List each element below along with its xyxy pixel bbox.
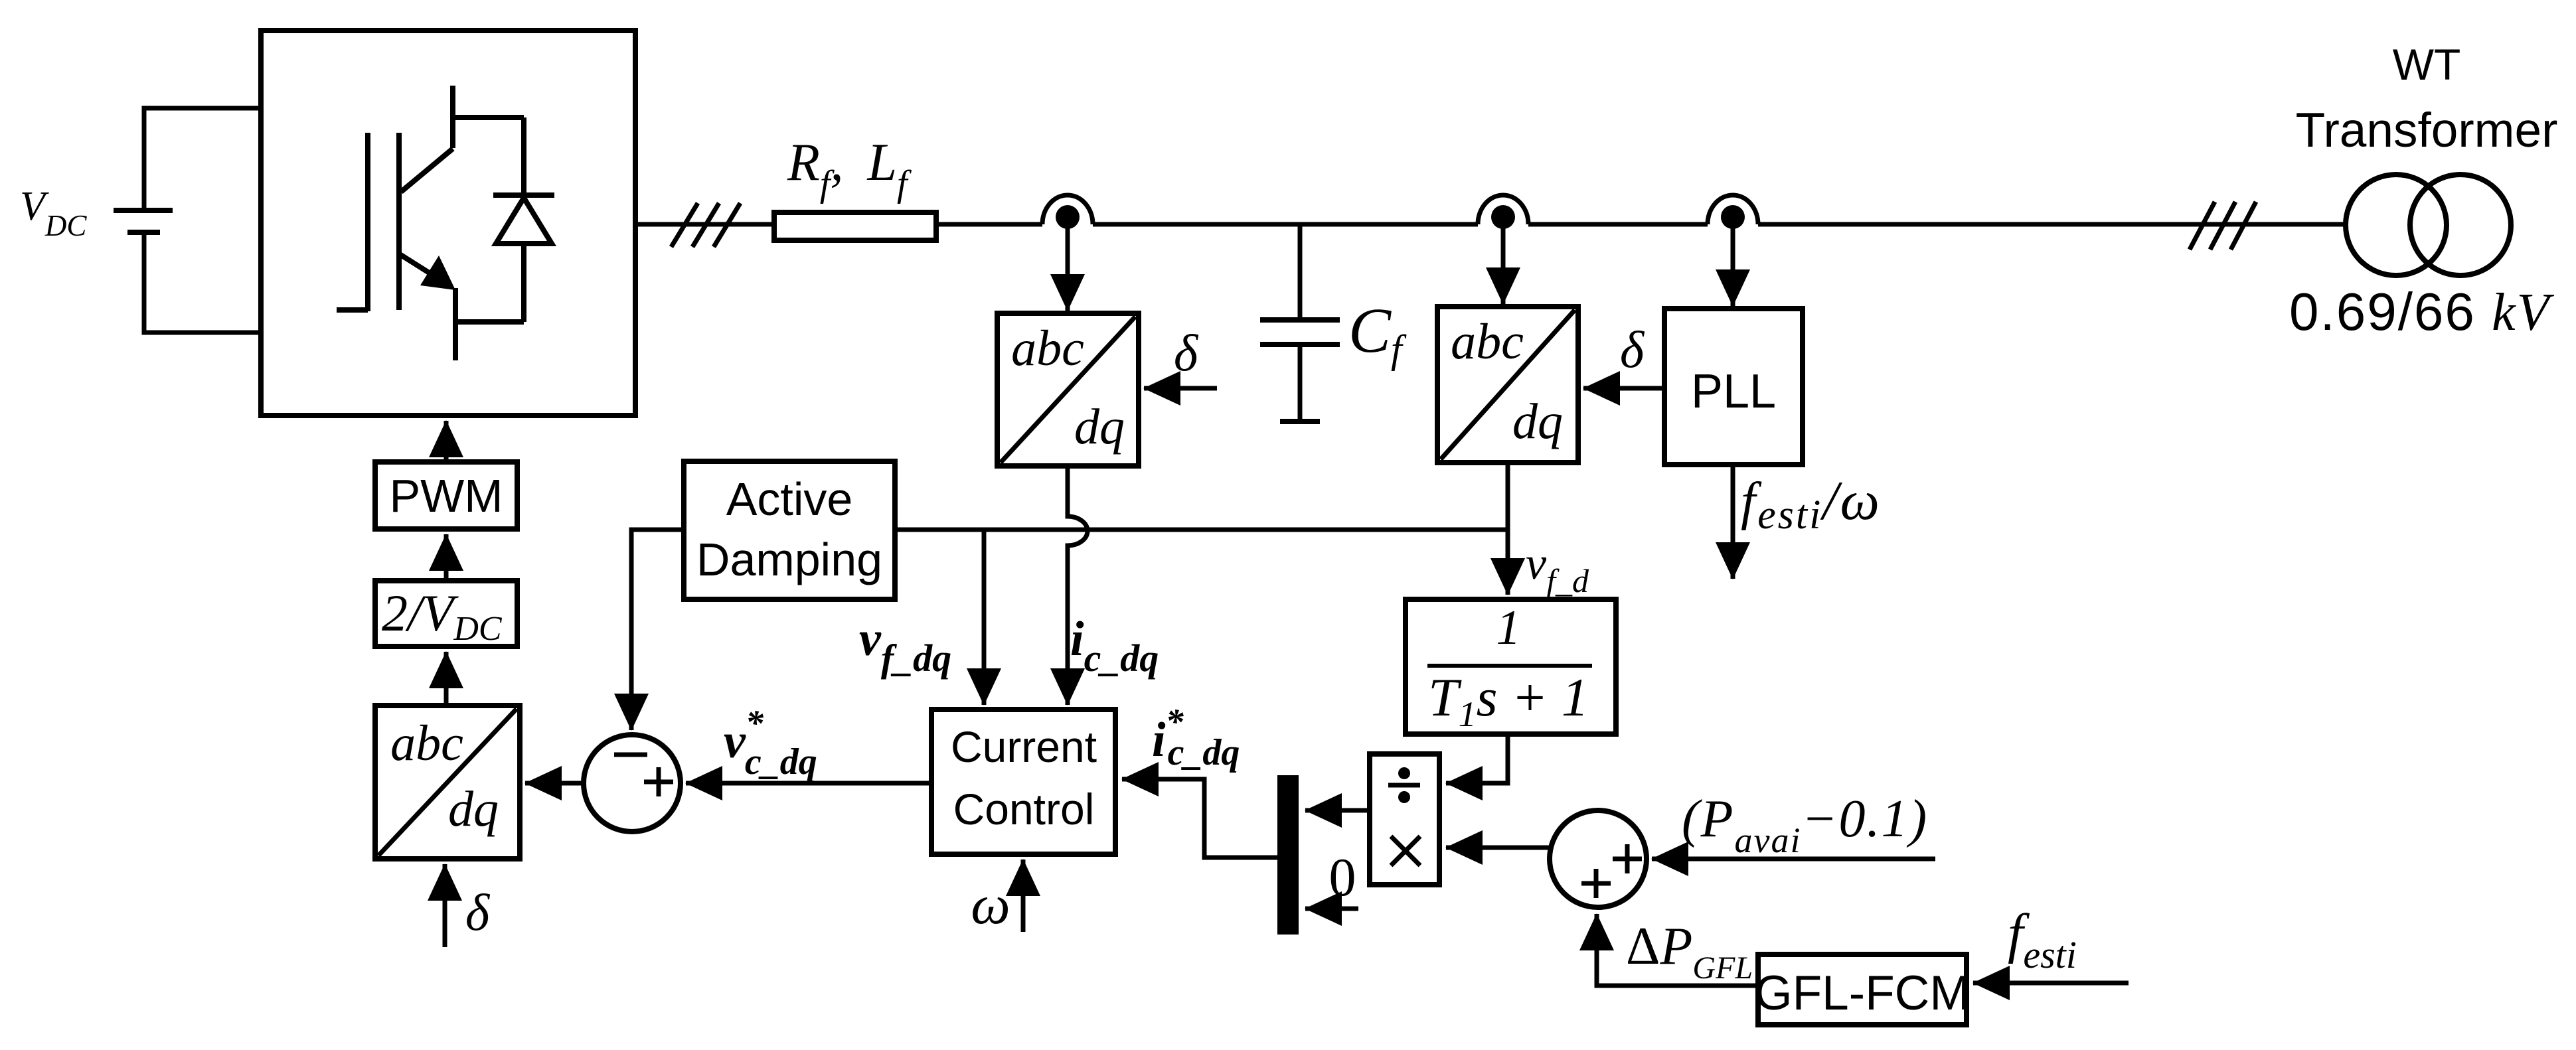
abc/dq block 3 [375, 706, 520, 859]
svg-text:Transformer: Transformer [2296, 104, 2558, 157]
svg-text:1: 1 [1496, 601, 1521, 655]
wire zero to selector [1305, 907, 1358, 911]
wire GFL-FCM to sum2 (dPGFL) [1597, 914, 1758, 986]
summing junction 1 [584, 735, 681, 832]
inductor Rf Lf [774, 212, 936, 240]
active damping box [684, 461, 895, 599]
node 2 tap [1478, 195, 1528, 229]
summing junction 2 [1550, 810, 1647, 907]
svg-text:δ: δ [1174, 324, 1199, 382]
wire ac bus [635, 222, 2346, 227]
svg-text:GFL-FCM: GFL-FCM [1755, 966, 1970, 1020]
svg-text:ω: ω [971, 874, 1010, 936]
converter box [261, 31, 635, 415]
wire 2VDC to PWM [444, 534, 449, 581]
svg-text:abc: abc [390, 715, 463, 771]
diode D1 [493, 117, 554, 322]
svg-text:PLL: PLL [1691, 365, 1776, 418]
transistor IGBT [337, 86, 524, 360]
wire Pavai to sum2 [1652, 857, 1935, 862]
wire selector to current control (icdq*) [1122, 779, 1277, 858]
svg-text:δ: δ [465, 883, 491, 941]
wire dc top [144, 108, 260, 208]
node 1 tap [1042, 195, 1093, 229]
wire sum2 to multiply [1446, 846, 1550, 850]
wire vfdq to current control [982, 530, 987, 705]
wire delta3 to abcdq3 [443, 864, 447, 947]
wire PWM to converter [444, 421, 449, 462]
three-phase marks left [671, 203, 740, 247]
wire delta1 to abcdq1 [1144, 386, 1217, 391]
wire node2 to abcdq2 [1501, 223, 1506, 304]
svg-text:dq: dq [448, 781, 499, 837]
svg-text:abc: abc [1011, 321, 1084, 376]
capacitor Cf [1260, 224, 1340, 421]
wire current control to sum1 (vcdq*) [686, 781, 931, 786]
svg-text:δ: δ [1620, 321, 1645, 378]
abc/dq block 1 [997, 313, 1139, 466]
svg-text:abc: abc [1451, 314, 1524, 370]
dc source VDC [114, 210, 173, 232]
selector bar [1277, 775, 1299, 935]
abc/dq block 2 [1437, 307, 1578, 463]
wire filter to divide [1446, 734, 1508, 783]
svg-text:dq: dq [1512, 394, 1563, 449]
wire feedback horizontal [895, 528, 1508, 532]
wire abcdq2 to filter (vfd) [1506, 463, 1510, 595]
PWM box [375, 462, 517, 529]
PLL box [1664, 309, 1803, 465]
GFL-FCM box [1755, 954, 1970, 1025]
svg-text:0: 0 [1329, 847, 1356, 907]
three-phase marks right [2190, 202, 2256, 250]
svg-text:WT: WT [2393, 40, 2461, 89]
svg-text:PWM: PWM [389, 470, 503, 522]
wire PLL to festi [1731, 465, 1735, 579]
svg-text:Current: Current [951, 722, 1097, 771]
wire dc bottom [144, 235, 260, 333]
wire sum1 to abcdq3 [525, 781, 584, 786]
wire PLL to abcdq2 [1583, 386, 1664, 391]
svg-text:Active: Active [726, 473, 853, 525]
svg-text:T1s + 1: T1s + 1 [1428, 667, 1589, 734]
transformer WT [2346, 175, 2511, 275]
filter block 1/(T1s+1) [1406, 599, 1616, 734]
wire omega to current control [1021, 860, 1026, 932]
svg-text:Damping: Damping [696, 534, 882, 585]
wire icdq with hop [1068, 466, 1087, 705]
IGBT emitter arrowhead [420, 256, 455, 290]
wire node1 to abcdq1 [1066, 223, 1070, 311]
current control box [931, 710, 1115, 854]
wire node3 to PLL [1731, 223, 1735, 306]
wire divide to selector [1305, 808, 1370, 813]
wire festi to GFL-FCM [1973, 981, 2129, 986]
wire active damping to sum1 [631, 530, 684, 730]
svg-text:dq: dq [1074, 399, 1125, 455]
node 3 tap [1708, 195, 1758, 229]
divide-multiply block [1370, 754, 1439, 885]
gain block 2/VDC [375, 581, 517, 648]
svg-text:0.69/66 kV: 0.69/66 kV [2289, 282, 2555, 342]
wire abcdq3 to 2VDC [444, 652, 449, 706]
svg-text:Control: Control [953, 785, 1095, 834]
